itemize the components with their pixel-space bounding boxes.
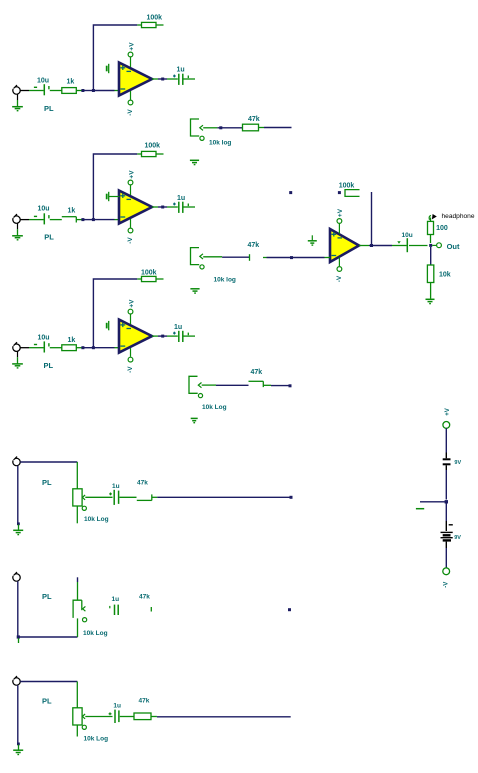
svg-text:Out: Out <box>447 242 460 251</box>
svg-text:9V: 9V <box>454 535 461 541</box>
svg-text:100k: 100k <box>145 143 161 150</box>
svg-text:47k: 47k <box>137 480 148 487</box>
svg-text:10u: 10u <box>38 334 50 341</box>
svg-text:1u: 1u <box>177 67 185 74</box>
svg-text:47k: 47k <box>251 369 263 376</box>
svg-text:10k Log: 10k Log <box>83 630 108 637</box>
svg-text:+V: +V <box>128 299 135 308</box>
svg-text:10k Log: 10k Log <box>84 516 109 523</box>
svg-text:1k: 1k <box>67 79 75 86</box>
svg-text:1k: 1k <box>68 337 76 344</box>
svg-text:9V: 9V <box>454 460 461 466</box>
svg-text:10u: 10u <box>402 232 413 239</box>
svg-text:headphone: headphone <box>442 213 475 220</box>
svg-text:47k: 47k <box>248 242 260 249</box>
svg-text:-V: -V <box>444 582 450 588</box>
svg-text:PL: PL <box>42 478 52 487</box>
svg-text:47k: 47k <box>139 593 150 600</box>
svg-text:1u: 1u <box>112 483 120 490</box>
svg-text:1u: 1u <box>177 195 185 202</box>
svg-text:10k log: 10k log <box>209 140 231 147</box>
svg-text:100k: 100k <box>339 183 355 190</box>
svg-text:10k log: 10k log <box>214 277 236 284</box>
svg-text:1u: 1u <box>112 596 120 603</box>
svg-text:10k Log: 10k Log <box>202 404 227 411</box>
svg-text:10u: 10u <box>38 206 50 213</box>
svg-text:PL: PL <box>42 592 52 601</box>
svg-text:100k: 100k <box>147 15 163 22</box>
svg-text:10k: 10k <box>439 272 451 279</box>
svg-text:PL: PL <box>44 104 54 113</box>
svg-text:-V: -V <box>336 275 343 282</box>
svg-text:PL: PL <box>44 361 54 370</box>
svg-text:47k: 47k <box>248 116 260 123</box>
svg-text:-V: -V <box>127 237 134 244</box>
svg-text:10k Log: 10k Log <box>84 736 109 743</box>
svg-text:10u: 10u <box>37 78 49 85</box>
svg-text:+V: +V <box>128 42 135 51</box>
svg-text:PL: PL <box>44 233 54 242</box>
svg-text:+V: +V <box>128 170 135 179</box>
svg-text:1u: 1u <box>113 703 121 710</box>
svg-text:+V: +V <box>337 208 344 217</box>
svg-text:100: 100 <box>436 225 448 232</box>
svg-text:-V: -V <box>127 366 134 373</box>
svg-text:47k: 47k <box>139 698 150 705</box>
svg-text:1k: 1k <box>68 208 76 215</box>
svg-text:100k: 100k <box>141 270 157 277</box>
svg-text:-V: -V <box>127 109 134 116</box>
svg-text:+V: +V <box>445 408 451 416</box>
svg-text:PL: PL <box>42 697 52 706</box>
svg-text:1u: 1u <box>174 324 182 331</box>
